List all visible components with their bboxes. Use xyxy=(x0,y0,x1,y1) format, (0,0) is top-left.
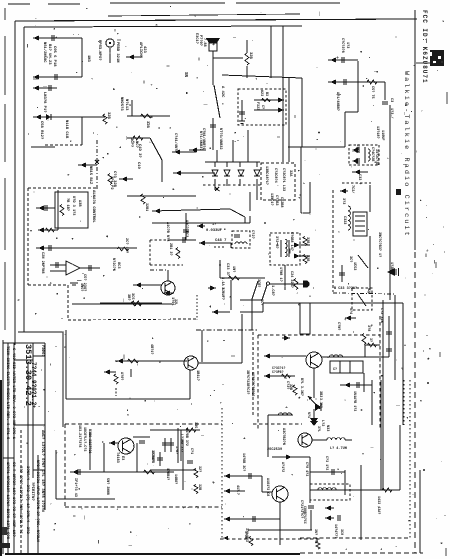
capacitor C5 xyxy=(45,205,47,211)
transformer T1 box xyxy=(232,231,250,248)
svg-text:4?B?: 4?B? xyxy=(355,144,359,152)
wire W123 xyxy=(312,439,327,441)
wire W107 xyxy=(136,443,138,472)
capacitor C6 xyxy=(49,245,51,251)
dashes W71c xyxy=(115,388,117,396)
wire W135 xyxy=(264,355,306,357)
dashed box T2 xyxy=(270,233,300,265)
capacitor C25 xyxy=(332,469,334,475)
wire W69c xyxy=(189,370,191,399)
ground GND3 xyxy=(239,121,245,124)
capacitor C3 xyxy=(49,85,51,91)
svg-text:C8-?-8PP3? 18? 1?3 ?3 C?-N3P 1: C8-?-8PP3? 18? 1?3 ?3 C?-N3P 18? xyxy=(11,462,15,537)
wire W116 xyxy=(261,476,263,492)
svg-text:LN3?8 P1?: LN3?8 P1? xyxy=(42,92,46,113)
svg-text:IF1+?3 43: IF1+?3 43 xyxy=(73,478,77,497)
dashed box L5 xyxy=(310,484,350,500)
wire W8 xyxy=(81,117,83,145)
dashed box IC1 xyxy=(261,163,295,200)
dashed W144 xyxy=(203,184,262,186)
svg-text:N?2C?N: N?2C?N xyxy=(111,258,115,271)
dashed box Q1 bias xyxy=(150,240,183,265)
dashed W43 xyxy=(68,319,196,320)
svg-text:C?2B3: C?2B3 xyxy=(274,195,278,206)
svg-text:3?3B8?: 3?3B8? xyxy=(150,450,154,462)
svg-text:C?1: C?1 xyxy=(189,448,193,454)
wire W39c xyxy=(127,195,196,197)
wire W105 xyxy=(89,432,91,470)
line under FCC block xyxy=(416,62,436,64)
svg-text:B?L 3.3K?: B?L 3.3K? xyxy=(300,378,304,396)
wire W113b xyxy=(272,456,310,458)
svg-text:N28: N28 xyxy=(367,288,371,294)
svg-text:1?8B: 1?8B xyxy=(244,531,248,539)
svg-text:3NC?C?B3? 1?: 3NC?C?B3? 1? xyxy=(377,232,381,257)
dashed box TX top xyxy=(258,334,380,336)
wire W75 xyxy=(357,61,359,112)
svg-text:N33: N33 xyxy=(325,425,329,431)
dashed W44 xyxy=(28,284,68,286)
wire W71b xyxy=(130,369,132,377)
svg-text:NC?: NC? xyxy=(134,141,138,149)
wire W126 xyxy=(360,465,362,540)
border inner left xyxy=(23,27,25,332)
inductor L3 xyxy=(278,413,291,415)
wire W82 xyxy=(352,171,368,173)
svg-text:C 400 OID WATER LTD REV. 0 C?3: C 400 OID WATER LTD REV. 0 C?3 N8 3?C 1 xyxy=(11,348,15,440)
page corner dark bottom-left xyxy=(0,380,2,556)
svg-text:4B?1?: 4B?1? xyxy=(149,344,153,355)
dashed box DET xyxy=(238,89,286,125)
resistor R2 xyxy=(141,114,152,118)
capacitor C18 xyxy=(78,469,80,475)
svg-text:3CP?: 3CP? xyxy=(129,138,133,148)
wire W20 xyxy=(246,40,248,53)
dashed W91 xyxy=(333,293,396,294)
wire W85 xyxy=(309,182,311,213)
resistor R20 xyxy=(194,469,198,478)
wire W69b xyxy=(201,330,203,362)
svg-text:3CB?: 3CB? xyxy=(256,279,260,287)
arrow J23 xyxy=(212,309,218,314)
diode D4 xyxy=(238,170,244,176)
svg-text:335: 335 xyxy=(193,422,197,428)
wire box W93 xyxy=(300,303,310,334)
dashed box MOD xyxy=(352,288,372,310)
arrow J17 xyxy=(294,242,300,247)
dashed box TX left xyxy=(257,335,259,430)
wire W119 long xyxy=(248,529,312,531)
wire W60 dash xyxy=(252,332,254,415)
svg-text:1N?: 1N? xyxy=(231,266,235,272)
capacitor C29 xyxy=(386,349,392,351)
svg-text:3?: 3? xyxy=(369,338,373,342)
wire W90 xyxy=(341,265,343,282)
wire W27 xyxy=(288,78,290,162)
svg-text:C?0 4?3: C?0 4?3 xyxy=(304,462,308,476)
wire W122 xyxy=(371,380,373,425)
svg-text:3?8: 3?8 xyxy=(366,325,370,331)
svg-text:+4?8B 3?2: +4?8B 3?2 xyxy=(185,428,189,446)
logo mark xyxy=(430,50,444,66)
wire W4 xyxy=(33,87,57,89)
wire W124 xyxy=(310,471,345,473)
svg-text:1?: 1? xyxy=(212,223,216,227)
transformer T4 box xyxy=(353,212,367,236)
wire W3 xyxy=(33,76,82,78)
arrow J27 xyxy=(352,158,358,163)
svg-text:1B1L?: 1B1L? xyxy=(195,370,199,381)
svg-text:NPD? 93531 APW? L?3?N 3? ?8C.: NPD? 93531 APW? L?3?N 3? ?8C. N?3LN xyxy=(35,460,39,542)
svg-text:1?B?: 1?B? xyxy=(174,446,178,454)
wire W18 xyxy=(212,51,214,85)
resistor R11 xyxy=(294,279,298,290)
capacitor C7 xyxy=(56,262,58,268)
resistor R18 xyxy=(144,470,155,474)
switch SW1 xyxy=(150,138,162,160)
capacitor C31 xyxy=(308,506,314,508)
svg-text:C?2C8?4: C?2C8?4 xyxy=(273,168,277,183)
transformer T2 coil xyxy=(285,239,287,257)
dashed W45 xyxy=(67,285,69,320)
capacitor C10 xyxy=(183,237,185,243)
svg-text:C323: C323 xyxy=(342,216,346,224)
resistor R5 xyxy=(245,53,249,65)
svg-text:13NC1?: 13NC1? xyxy=(269,193,273,206)
resistor R16 xyxy=(367,80,377,84)
arrow J45 xyxy=(224,488,230,493)
wire W104 xyxy=(56,498,115,500)
arrow J38 xyxy=(325,505,331,510)
capacitor C1 xyxy=(52,35,54,41)
wire W143 xyxy=(159,452,161,466)
capacitor C11 xyxy=(234,235,240,237)
svg-text:N?1/4NB3?: N?1/4NB3? xyxy=(198,131,203,150)
ground GND2 xyxy=(310,421,318,426)
switch SW3 xyxy=(230,209,245,217)
arrow J44 xyxy=(284,335,290,340)
border inner top xyxy=(24,26,302,27)
arrow J29 xyxy=(340,188,346,193)
svg-text:NB15 B1Z: NB15 B1Z xyxy=(88,166,92,185)
svg-text:14?4?7?: 14?4?7? xyxy=(333,524,337,538)
svg-text:N?L13: N?L13 xyxy=(124,99,128,111)
wire W84 xyxy=(300,147,302,213)
wire W99 xyxy=(313,409,315,422)
wire W35 xyxy=(232,140,234,162)
svg-text:A181?3 C8: A181?3 C8 xyxy=(265,478,269,496)
microphone MK1 xyxy=(106,39,114,47)
inductor L1 xyxy=(348,206,350,230)
inductor L6 xyxy=(382,488,392,492)
speaker SP1 xyxy=(206,38,220,43)
wire W26 xyxy=(282,78,284,162)
resistor R24 xyxy=(316,541,320,549)
svg-text:1?2B: 1?2B xyxy=(389,262,393,271)
arrow J18 xyxy=(294,253,300,258)
arrow J34 xyxy=(224,473,230,478)
capacitor C13 xyxy=(344,79,346,85)
wire W127 long xyxy=(310,489,400,491)
svg-text:RPS3-NPS?: RPS3-NPS? xyxy=(97,40,101,61)
resistor R27 xyxy=(293,385,297,395)
svg-text:3P1 P2: 3P1 P2 xyxy=(109,176,113,190)
arrow J14 xyxy=(154,208,160,213)
ground GND4 xyxy=(310,418,318,424)
dashdot W64 xyxy=(150,269,168,271)
box VR1 xyxy=(55,192,88,228)
resistor R14 xyxy=(176,248,180,259)
switch SW4 xyxy=(252,281,258,299)
transistor Q4 xyxy=(118,438,134,454)
svg-text:1-C8?: 1-C8? xyxy=(270,285,274,296)
box FL1 rungs xyxy=(339,361,341,373)
wire W19 xyxy=(213,57,243,59)
capacitor C16 xyxy=(357,158,359,164)
svg-text:C?3?: C?3? xyxy=(285,381,289,389)
resistor R6 xyxy=(60,205,64,216)
arrow J40 xyxy=(278,97,284,102)
wire W103 xyxy=(55,450,57,499)
wire W41 xyxy=(80,267,100,269)
svg-text:2C? 18?: 2C? 18? xyxy=(124,238,128,253)
wire W112 xyxy=(182,440,184,490)
wire rail right mid xyxy=(394,295,396,380)
arrow J33 xyxy=(286,454,292,459)
svg-text:FCC ID: K6ZU8U71: FCC ID: K6ZU8U71 xyxy=(421,10,428,84)
wire W25 xyxy=(301,78,303,147)
wire W6 xyxy=(126,56,140,58)
junction X1 xyxy=(95,160,99,164)
svg-text:3B?: 3B? xyxy=(126,294,130,300)
resistor R13 xyxy=(132,301,142,305)
svg-text:3N? 1?B: 3N? 1?B xyxy=(313,529,317,543)
capacitor C9 xyxy=(183,230,189,232)
transistor Q5 xyxy=(272,486,288,502)
capacitor C17 xyxy=(339,273,345,275)
wire W55 xyxy=(284,265,286,290)
capacitor C14 xyxy=(382,102,388,104)
svg-text:110UF: 110UF xyxy=(380,130,384,141)
svg-text:1?3: 1?3 xyxy=(345,42,349,48)
wire W28 xyxy=(212,118,214,150)
wire W98 xyxy=(363,373,365,392)
svg-text:423: 423 xyxy=(142,46,146,54)
wire W114 xyxy=(267,415,269,457)
wire W26d xyxy=(241,100,243,121)
svg-text:PEBD 321N: PEBD 321N xyxy=(115,42,119,63)
border right xyxy=(414,10,416,250)
arrow J15 xyxy=(197,223,203,228)
dashed W120 xyxy=(220,538,320,540)
svg-text:L?2: L?2 xyxy=(320,420,324,426)
inductor L2 xyxy=(329,355,342,357)
svg-text:1433 43A?: 1433 43A? xyxy=(376,496,380,514)
page edge mark left xyxy=(4,8,6,20)
arrow J6 xyxy=(80,162,86,167)
wire W115 xyxy=(224,475,262,477)
wire W13 xyxy=(127,137,150,139)
capacitor C32 xyxy=(157,458,163,460)
svg-text:32B1: 32B1 xyxy=(144,203,148,211)
arrow J24 xyxy=(330,57,336,62)
svg-text:3C5: 3C5 xyxy=(130,293,134,299)
ground GND1 xyxy=(70,282,78,284)
wire W97 xyxy=(313,368,315,398)
svg-text:3B3: 3B3 xyxy=(318,391,322,397)
arrow J1 xyxy=(33,35,39,40)
svg-text:A1C?B N?3: A1C?B N?3 xyxy=(165,222,169,241)
wire W113 xyxy=(268,414,293,416)
svg-text:1N3: 1N3 xyxy=(86,55,90,63)
arrow J5 xyxy=(35,114,41,119)
svg-text:C24 32B?: C24 32B? xyxy=(289,271,293,288)
svg-text:3?L: 3?L xyxy=(317,426,321,432)
wire W39b xyxy=(38,229,58,231)
wire W42 long xyxy=(72,303,172,305)
svg-text:13?18?: 13?18? xyxy=(375,126,379,139)
arrow J10 xyxy=(175,170,181,175)
dotted W100 xyxy=(221,408,223,538)
svg-text:CA2B8: CA2B8 xyxy=(279,197,283,208)
wire W49 xyxy=(185,213,187,240)
capacitor C20 xyxy=(162,443,168,445)
svg-text:3B?C?32B?C3?: 3B?C?32B?C3? xyxy=(245,370,249,394)
capacitor C26 xyxy=(338,515,340,521)
svg-text:0.033UF: 0.033UF xyxy=(206,229,223,233)
arrow J47 xyxy=(223,536,228,540)
page edge mark bottom xyxy=(5,553,300,555)
wire W46 long xyxy=(152,209,230,211)
arrow J48 xyxy=(38,227,44,232)
wire W110 xyxy=(164,438,166,452)
svg-text:L? 4.7UH: L? 4.7UH xyxy=(330,447,347,451)
svg-text:32?: 32? xyxy=(197,466,201,472)
svg-text:C5? 75: C5? 75 xyxy=(370,86,374,99)
wire W24 long xyxy=(222,75,302,78)
svg-text:C?41/4N?8: C?41/4N?8 xyxy=(173,133,178,152)
svg-text:C?21?3?C?: C?21?3?C? xyxy=(299,500,303,518)
wire W72 xyxy=(241,314,243,363)
resistor R25 xyxy=(262,98,271,101)
resistor R8 xyxy=(131,302,142,306)
wire W138 xyxy=(364,345,366,357)
wire W47 long xyxy=(152,222,250,224)
resistor R3 xyxy=(133,136,143,140)
switch SW5 xyxy=(358,255,368,268)
svg-text:C58 R12?: C58 R12? xyxy=(39,121,43,140)
arrow J8 xyxy=(191,147,197,152)
inductor T1 coil xyxy=(235,242,247,244)
page edge right marks xyxy=(446,92,448,104)
dashes W52 xyxy=(214,246,226,248)
dashed box OSC left xyxy=(64,424,66,507)
wire W26b xyxy=(254,99,284,101)
arrow J2 xyxy=(33,74,39,79)
transistor Q6 xyxy=(298,433,312,447)
svg-text:14?8B 3C?: 14?8B 3C? xyxy=(241,453,245,471)
wire W68 xyxy=(66,398,190,400)
svg-text:C?N?: C?N? xyxy=(336,322,340,330)
svg-text:C?2?: C?2? xyxy=(250,230,254,239)
scan noise speckle xyxy=(156,88,158,90)
wire W77 xyxy=(328,81,385,83)
wire W78 xyxy=(384,82,386,100)
wire W132 xyxy=(262,303,264,312)
wire W7 xyxy=(33,116,105,118)
svg-text:B3: B3 xyxy=(264,92,268,96)
wire W142 xyxy=(310,510,312,530)
svg-text:A?1?2: A?1?2 xyxy=(280,462,284,472)
arrow J3 xyxy=(33,85,39,90)
svg-text:W23: W23 xyxy=(259,90,263,96)
power mark xyxy=(396,189,401,195)
svg-text:8C3: 8C3 xyxy=(116,262,120,268)
svg-text:18C8?LL?-C?3: 18C8?LL?-C?3 xyxy=(82,427,86,451)
transistor Q3 xyxy=(306,352,322,368)
wire border bottom right vertical xyxy=(419,470,421,553)
svg-text:2B1 3?: 2B1 3? xyxy=(168,243,172,256)
arrow J43 xyxy=(264,373,270,378)
wire W121 xyxy=(340,384,372,386)
svg-text:C2N 2NP?N8: C2N 2NP?N8 xyxy=(40,252,44,274)
page edge mark top xyxy=(8,3,30,5)
wire W81 long xyxy=(288,146,345,148)
transistor Q2 xyxy=(184,356,198,370)
wire W125 xyxy=(344,470,346,495)
connector CN1 xyxy=(303,281,310,288)
capacitor C22 xyxy=(249,473,251,479)
wire W141 xyxy=(224,518,280,520)
arrow J20 xyxy=(135,282,141,287)
svg-text:C?3P8?: C?3P8? xyxy=(272,370,284,374)
svg-text:7.88: 7.88 xyxy=(202,38,206,47)
wire W37 xyxy=(36,207,55,209)
wire W85b xyxy=(301,212,310,214)
wire W14 xyxy=(161,160,163,182)
svg-text:32B: 32B xyxy=(305,255,309,262)
transformer T5 xyxy=(177,428,179,463)
svg-text:41?.?: 41?.? xyxy=(236,485,240,495)
resistor R23 xyxy=(249,537,253,546)
wire W5 xyxy=(109,48,111,63)
svg-text:1C53: 1C53 xyxy=(352,262,356,270)
page edge mark top inner xyxy=(108,14,300,16)
svg-text:32A: 32A xyxy=(288,170,292,177)
resistor R21 xyxy=(194,485,198,494)
wire W131 long xyxy=(263,302,403,304)
wire rail right c xyxy=(399,425,401,490)
dashdot W70 long xyxy=(196,329,258,331)
wire W108 xyxy=(133,436,150,438)
wire W71 long xyxy=(115,360,187,362)
wire W108b xyxy=(103,443,105,472)
wire W74 xyxy=(328,59,358,61)
capacitor C24 xyxy=(357,382,359,388)
svg-text:32B: 32B xyxy=(145,121,149,129)
arrow J39 xyxy=(325,515,331,520)
diode D3 xyxy=(224,170,230,176)
capacitor C8 xyxy=(89,265,91,271)
inductor L4 xyxy=(327,438,345,440)
capacitor C28 xyxy=(386,332,392,334)
arrow J19 xyxy=(210,285,216,290)
wire W33 xyxy=(214,162,216,167)
wire W130 xyxy=(240,299,262,301)
wire dotted vertical right xyxy=(409,380,411,538)
wire W71d xyxy=(198,362,242,364)
junction X2 xyxy=(215,187,219,191)
